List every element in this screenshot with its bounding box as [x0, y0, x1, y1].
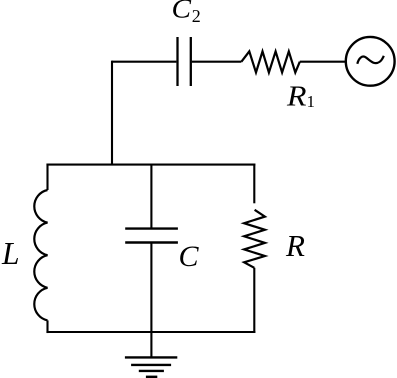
wire: tank bottom rail: [46, 331, 255, 333]
wire: inductor top lead: [46, 164, 48, 190]
wire: R1 to AC source: [300, 61, 346, 63]
wire: resistor R top lead: [253, 164, 255, 204]
svg-text:1: 1: [307, 92, 316, 111]
tilde inside AC source: [357, 56, 384, 64]
wire: capacitor C top lead: [150, 165, 152, 229]
resistor R1: [241, 51, 299, 72]
capacitor C2: [178, 37, 191, 86]
wire: tank top rail: [46, 164, 255, 166]
wire: between C2 and R1: [192, 61, 242, 63]
wire: capacitor C bottom lead: [150, 243, 152, 333]
label C2: [172, 0, 201, 26]
svg-text:C: C: [179, 240, 200, 273]
wire: vertical from top node down to tank top: [111, 61, 113, 165]
resistor R: [244, 210, 265, 268]
svg-text:2: 2: [192, 6, 201, 26]
label L: [1, 236, 20, 271]
label R: [285, 228, 305, 263]
wire: inductor bottom lead: [46, 320, 48, 333]
label C: [179, 240, 200, 273]
capacitor C: [125, 229, 178, 243]
wire: resistor R bottom lead: [253, 268, 255, 333]
AC source U1 (sinusoidal source): [346, 37, 395, 86]
svg-text:L: L: [1, 236, 20, 271]
inductor L: [34, 190, 47, 320]
svg-text:R: R: [285, 228, 305, 263]
ground: [125, 357, 177, 376]
wire: left lead of C2 (top horizontal, from corner node to left plate): [112, 61, 176, 63]
svg-text:R: R: [286, 81, 307, 113]
label R1: [286, 81, 315, 113]
svg-text:C: C: [172, 0, 193, 24]
wire: ground stub: [150, 332, 152, 357]
